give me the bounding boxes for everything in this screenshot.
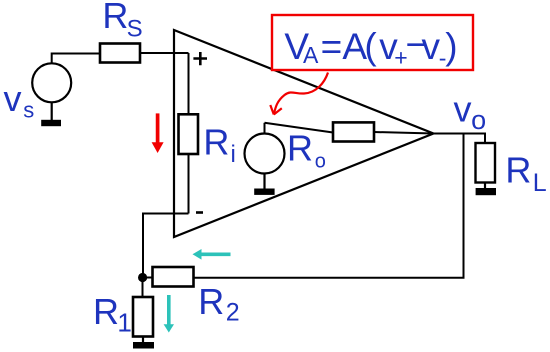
wire node to R1	[142, 278, 144, 298]
svg-text:L: L	[533, 169, 547, 197]
wire RL to ground	[484, 183, 486, 189]
svg-text:R: R	[505, 150, 531, 191]
svg-text:1: 1	[117, 308, 131, 338]
op-amp triangle	[174, 30, 434, 237]
resistor Ro	[333, 122, 374, 141]
source vs	[32, 63, 71, 102]
wire R1 to ground	[142, 337, 144, 343]
svg-text:R: R	[102, 0, 128, 36]
svg-text:o: o	[315, 150, 326, 172]
wire vs to RS	[52, 54, 100, 64]
red current arrow (input)	[152, 113, 164, 153]
svg-text:s: s	[23, 98, 34, 123]
svg-text:R: R	[203, 121, 229, 162]
ground (dep source)	[254, 189, 274, 195]
red pointer squiggle arrow	[270, 73, 328, 115]
svg-text:2: 2	[226, 299, 240, 327]
plus input marker	[193, 52, 207, 65]
teal current arrow (R1)	[164, 295, 174, 333]
wire through Ri	[188, 53, 190, 214]
minus input marker	[196, 211, 203, 214]
feedback wire vo to R2	[194, 134, 464, 278]
resistor R2	[153, 267, 194, 287]
svg-text:S: S	[127, 16, 143, 43]
svg-text:v: v	[4, 78, 22, 119]
annotation box VA formula	[272, 15, 473, 70]
dep source ground stub	[263, 174, 265, 190]
svg-text:R: R	[198, 281, 224, 322]
svg-text:v: v	[454, 88, 472, 129]
dependent source stub top	[264, 123, 266, 134]
ground (vs)	[41, 120, 61, 126]
resistor Ri	[179, 114, 199, 154]
ground (RL)	[476, 188, 496, 195]
svg-text:i: i	[231, 141, 236, 168]
wire Ro to output apex	[374, 132, 434, 134]
wire RS to op-amp + input	[140, 52, 189, 54]
wire vs to ground	[51, 102, 53, 120]
wire apex to vo / RL	[434, 134, 486, 144]
ground (R1)	[133, 342, 154, 349]
resistor R1	[133, 297, 153, 337]
dependent source VA	[245, 134, 285, 174]
teal feedback current arrow	[193, 249, 231, 260]
resistor RL	[476, 143, 496, 183]
node junction dot	[138, 273, 147, 282]
wire node to R2	[142, 277, 153, 279]
wire dep source to Ro	[265, 123, 334, 133]
svg-text:R: R	[93, 291, 119, 332]
resistor RS	[100, 44, 140, 63]
svg-text:o: o	[471, 105, 486, 135]
wire inverting input	[143, 214, 189, 278]
svg-text:R: R	[287, 128, 313, 169]
